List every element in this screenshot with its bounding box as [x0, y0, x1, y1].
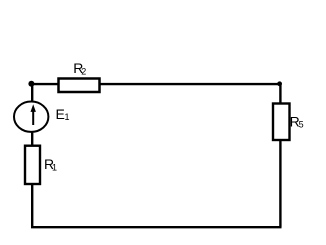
svg-text:1: 1: [52, 162, 57, 172]
svg-text:2: 2: [81, 67, 86, 77]
svg-text:E: E: [56, 106, 65, 122]
svg-text:5: 5: [299, 119, 304, 129]
svg-text:1: 1: [65, 112, 70, 122]
